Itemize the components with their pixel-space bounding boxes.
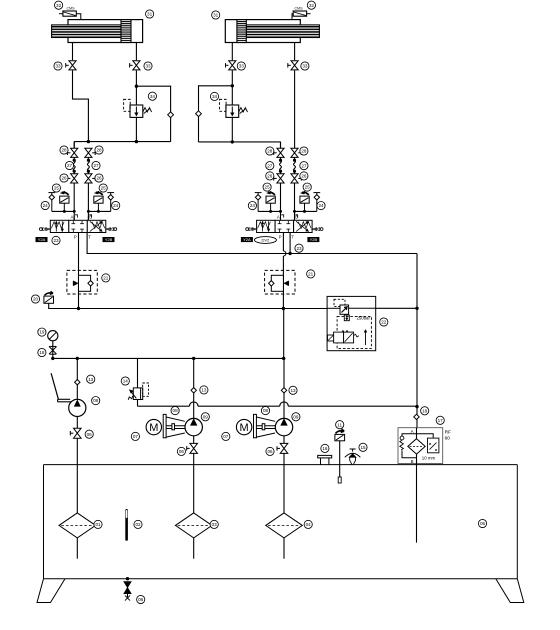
svg-text:26: 26	[267, 173, 273, 178]
svg-text:P: P	[279, 235, 282, 240]
svg-text:26: 26	[301, 173, 307, 178]
svg-text:25: 25	[101, 186, 107, 191]
svg-text:14: 14	[123, 379, 129, 384]
svg-text:28: 28	[267, 149, 273, 154]
svg-text:25: 25	[54, 186, 60, 191]
svg-text:60: 60	[445, 435, 451, 441]
svg-text:28: 28	[61, 148, 67, 153]
svg-text:06: 06	[87, 432, 93, 437]
svg-text:02: 02	[135, 522, 141, 527]
svg-text:33: 33	[55, 64, 61, 69]
svg-text:33: 33	[302, 64, 308, 69]
svg-text:07: 07	[223, 434, 229, 439]
svg-text:21: 21	[103, 275, 109, 280]
svg-text:27: 27	[301, 163, 307, 168]
svg-text:13: 13	[290, 388, 296, 393]
svg-text:06: 06	[138, 597, 144, 602]
svg-text:24: 24	[43, 203, 49, 208]
svg-text:04: 04	[306, 522, 312, 527]
svg-text:27: 27	[93, 163, 99, 168]
svg-text:34: 34	[150, 94, 156, 99]
svg-text:08: 08	[93, 398, 99, 403]
svg-text:26: 26	[61, 176, 67, 181]
svg-text:01: 01	[95, 522, 101, 527]
svg-text:A: A	[71, 215, 74, 220]
svg-text:32: 32	[309, 3, 315, 8]
svg-text:DV2: DV2	[262, 238, 271, 243]
svg-text:05: 05	[480, 521, 486, 526]
svg-text:32: 32	[56, 3, 62, 8]
svg-text:A: A	[411, 429, 414, 434]
svg-text:25: 25	[305, 185, 311, 190]
svg-text:27: 27	[67, 163, 73, 168]
svg-text:06: 06	[179, 449, 185, 454]
svg-text:24: 24	[318, 203, 324, 208]
svg-text:13: 13	[201, 387, 207, 392]
svg-text:17: 17	[438, 418, 444, 423]
svg-text:11: 11	[337, 422, 342, 427]
svg-text:03: 03	[212, 522, 218, 527]
svg-text:28: 28	[96, 148, 102, 153]
svg-text:25: 25	[265, 185, 271, 190]
svg-text:22: 22	[381, 320, 387, 325]
svg-text:23: 23	[53, 238, 59, 243]
svg-text:23: 23	[296, 246, 302, 251]
svg-text:20: 20	[33, 297, 39, 302]
svg-text:CMS: CMS	[67, 6, 76, 10]
svg-text:P: P	[74, 235, 77, 240]
svg-text:09: 09	[203, 414, 209, 419]
svg-text:09: 09	[293, 414, 299, 419]
svg-text:M: M	[240, 422, 249, 434]
svg-text:10 mm: 10 mm	[422, 456, 436, 461]
svg-text:06: 06	[267, 449, 273, 454]
svg-text:28: 28	[301, 149, 307, 154]
svg-text:B: B	[411, 459, 414, 464]
svg-text:A: A	[277, 215, 280, 220]
svg-text:33: 33	[239, 64, 245, 69]
svg-text:Y2B: Y2B	[105, 237, 113, 242]
svg-text:27: 27	[267, 163, 273, 168]
svg-text:Y2B: Y2B	[310, 237, 318, 242]
svg-text:18: 18	[422, 408, 428, 413]
svg-text:13: 13	[88, 377, 94, 382]
svg-text:RF: RF	[445, 429, 451, 435]
svg-text:24: 24	[250, 203, 256, 208]
svg-text:19: 19	[39, 330, 45, 335]
svg-text:08: 08	[173, 408, 179, 413]
svg-text:31: 31	[147, 12, 153, 17]
svg-text:18: 18	[39, 350, 45, 355]
svg-text:Y2A: Y2A	[243, 237, 251, 242]
svg-text:26: 26	[96, 176, 102, 181]
svg-text:CMS: CMS	[295, 6, 304, 10]
svg-text:34: 34	[212, 94, 218, 99]
svg-text:T: T	[291, 235, 294, 240]
svg-text:07: 07	[133, 434, 139, 439]
svg-text:24: 24	[113, 203, 119, 208]
svg-text:Y2A: Y2A	[38, 237, 46, 242]
svg-text:08: 08	[263, 408, 269, 413]
svg-text:21: 21	[308, 271, 314, 276]
svg-text:15: 15	[360, 445, 366, 450]
svg-text:33: 33	[145, 64, 151, 69]
svg-text:M: M	[149, 422, 158, 434]
svg-text:16: 16	[322, 446, 328, 451]
svg-text:31: 31	[213, 13, 219, 18]
svg-text:T: T	[88, 235, 91, 240]
